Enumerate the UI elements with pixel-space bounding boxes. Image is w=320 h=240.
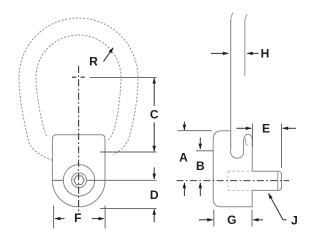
svg-text:R: R [89,55,98,69]
svg-text:H: H [261,47,270,61]
horizontal centerline tick at ring center [72,76,85,78]
bolt centerline (side view) [177,180,290,182]
svg-text:D: D [150,188,159,202]
groove U bottom [230,150,243,159]
leader R [104,48,114,62]
hidden bolt lines inside body [228,171,252,190]
extension line groove bottom (B top) [196,150,213,152]
washer circle (outer) [63,165,94,196]
svg-text:J: J [291,213,298,227]
lip inner curl [245,138,247,145]
G extension lines [214,210,252,227]
bail bar top break tips [231,13,248,22]
stud chamfer line [277,171,279,190]
svg-text:C: C [150,108,159,122]
svg-text:E: E [262,121,270,135]
svg-text:G: G [227,213,236,227]
leader J [269,194,284,220]
extension line ring center to C top [90,76,157,78]
E extension lines [252,124,281,169]
dimension C [150,78,159,151]
extension line bail bottom (C bottom) [100,151,157,153]
bail inner arc [36,35,121,141]
F extension lines [54,206,106,229]
extension line body top (A top) [178,130,212,132]
extension line bolt center (D top) [52,179,156,181]
hex socket [74,176,84,185]
svg-text:A: A [179,151,188,165]
dimension G [199,213,263,227]
bail bar right edge [244,21,246,77]
bail outer arc [19,18,138,161]
dimension B [196,138,205,197]
dimension H [211,47,269,61]
dimension D [150,167,159,222]
body (side) right upper outline with lip [244,134,253,171]
svg-text:F: F [74,211,81,225]
bolt head circle (middle) [72,173,87,188]
dimension E [237,121,297,135]
extension line body bottom (D bottom) [100,208,157,210]
dimension A [179,122,188,197]
dimension F [55,211,104,225]
body (side) left outline [213,131,252,207]
bail bar left edge [230,20,232,150]
body (front) [52,135,105,207]
vertical centerline (front view) [78,66,80,215]
svg-text:B: B [196,159,205,173]
stud / bolt end [252,171,281,190]
